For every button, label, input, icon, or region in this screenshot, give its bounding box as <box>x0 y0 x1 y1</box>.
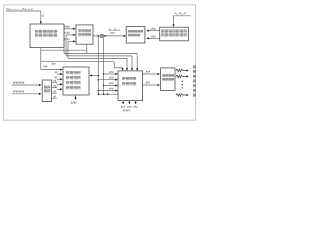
svg-text:zb,nb,k: zb,nb,k <box>174 11 187 16</box>
